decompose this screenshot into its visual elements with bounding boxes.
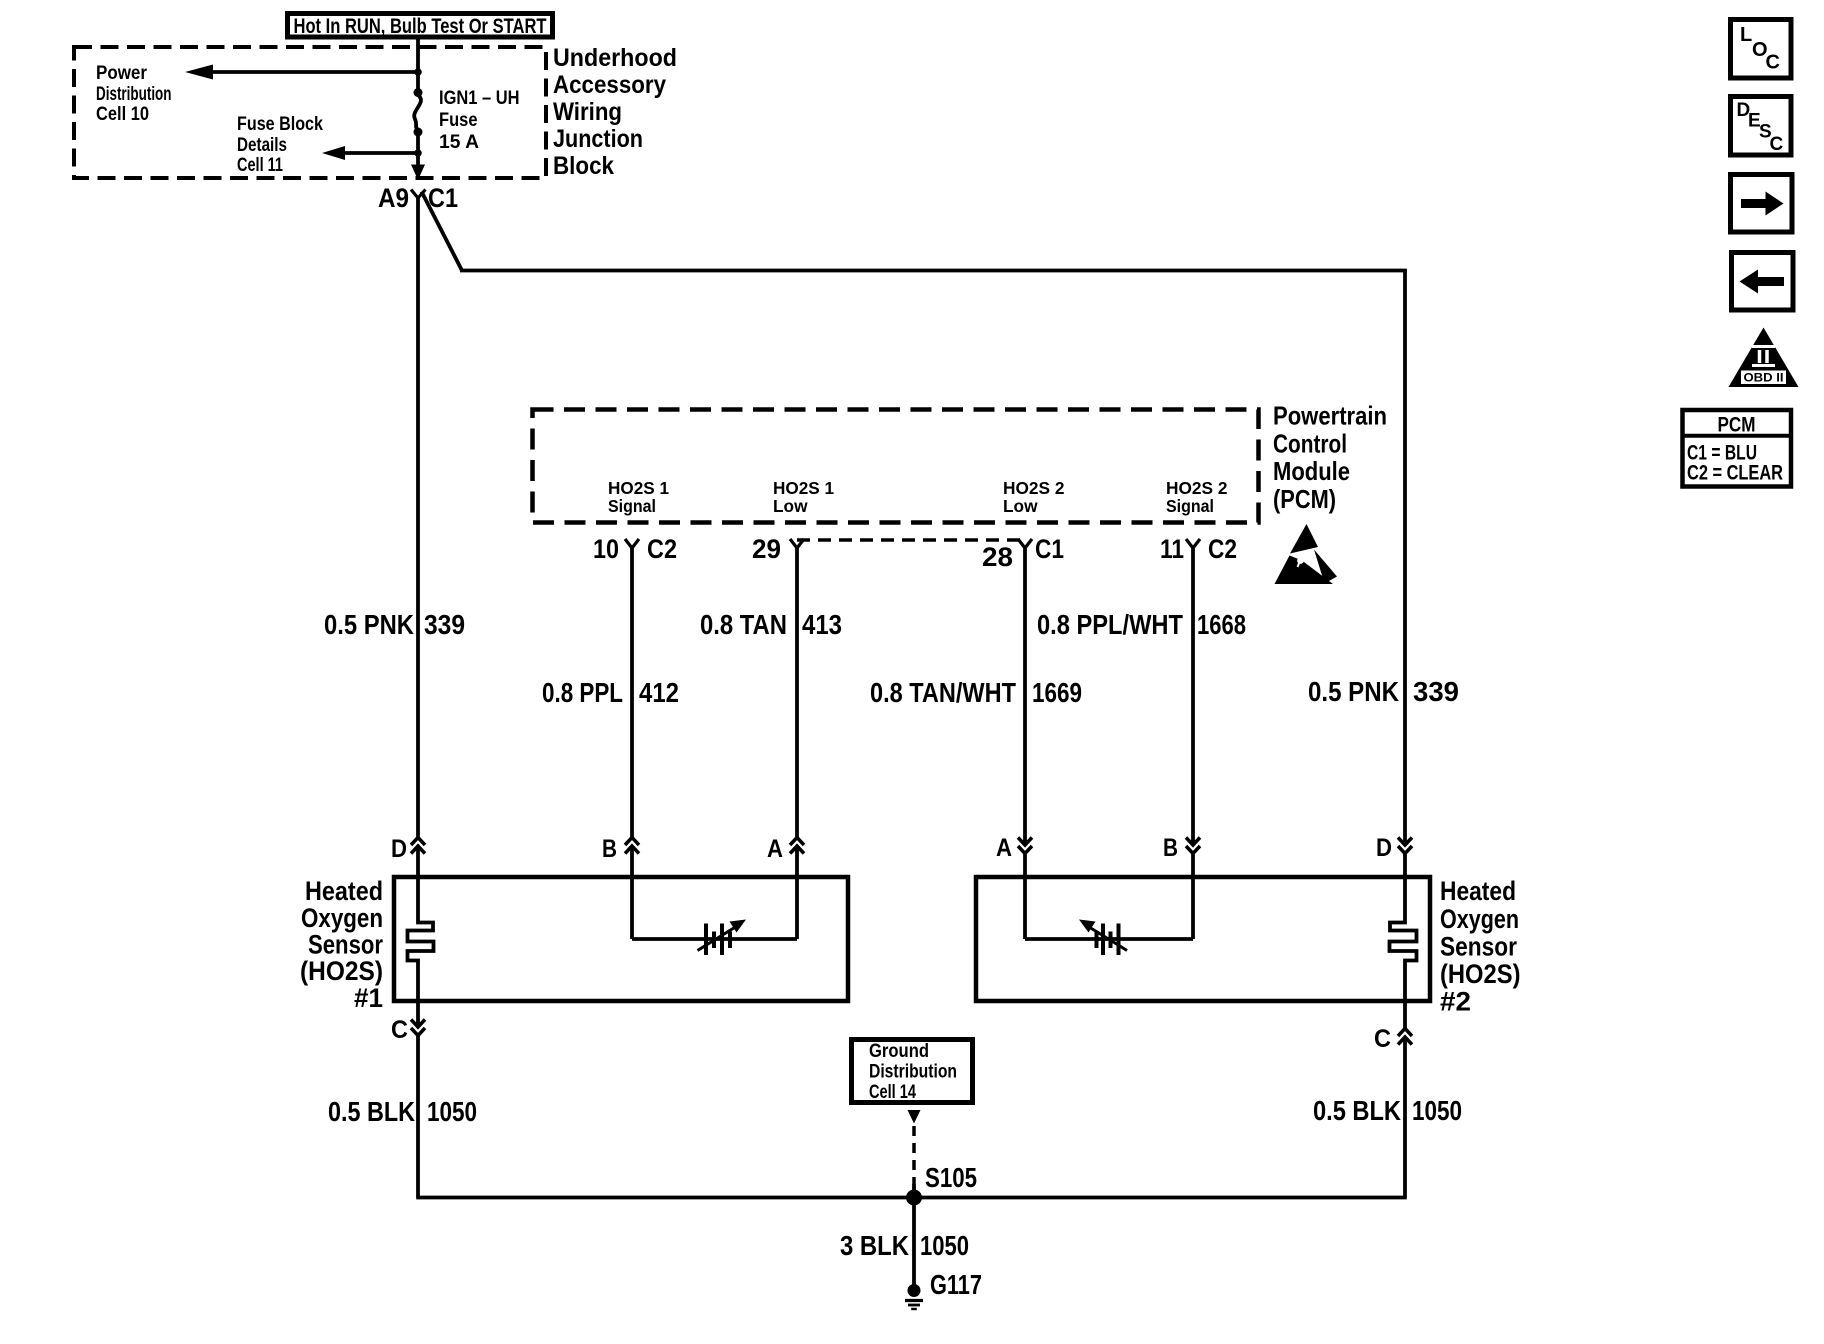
svg-text:Hot In RUN, Bulb Test Or START: Hot In RUN, Bulb Test Or START [294,15,547,38]
svg-text:Sensor: Sensor [308,930,383,960]
svg-text:413: 413 [802,609,842,640]
svg-text:1668: 1668 [1197,609,1246,640]
svg-text:Cell 14: Cell 14 [869,1082,916,1103]
svg-text:Heated: Heated [1440,876,1516,906]
svg-text:B: B [602,835,617,863]
svg-text:11: 11 [1160,534,1184,564]
svg-text:C2: C2 [647,534,677,564]
svg-text:Heated: Heated [305,876,383,906]
svg-text:339: 339 [1413,676,1459,707]
svg-text:C: C [1374,1025,1391,1053]
svg-text:Details: Details [237,135,287,156]
svg-text:1050: 1050 [920,1230,969,1261]
svg-text:B: B [1163,834,1178,862]
svg-text:OBD II: OBD II [1744,371,1784,385]
svg-text:Fuse Block: Fuse Block [237,114,323,135]
svg-text:Wiring: Wiring [553,98,622,126]
svg-text:C: C [391,1016,408,1044]
svg-text:G117: G117 [930,1269,982,1300]
svg-text:#2: #2 [1440,987,1471,1017]
svg-text:D: D [391,835,407,863]
svg-text:Control: Control [1273,428,1347,458]
svg-text:0.5 BLK: 0.5 BLK [328,1096,415,1127]
svg-text:C1: C1 [1035,534,1064,564]
svg-text:Oxygen: Oxygen [1440,904,1519,934]
svg-text:Block: Block [553,152,614,180]
svg-text:0.5 BLK: 0.5 BLK [1313,1095,1401,1126]
svg-text:Sensor: Sensor [1440,932,1517,962]
svg-text:412: 412 [639,677,679,708]
svg-text:Cell 11: Cell 11 [237,155,283,176]
svg-text:D: D [1376,834,1392,862]
svg-text:HO2S 1: HO2S 1 [773,478,834,498]
svg-text:C2: C2 [1208,534,1237,564]
svg-text:Signal: Signal [608,496,656,516]
svg-text:(PCM): (PCM) [1273,484,1336,514]
svg-text:(HO2S): (HO2S) [300,956,383,986]
svg-text:C2 = CLEAR: C2 = CLEAR [1687,462,1783,485]
svg-text:Oxygen: Oxygen [301,903,383,933]
svg-text:Accessory: Accessory [553,71,666,99]
svg-text:C1: C1 [428,183,458,213]
svg-text:PCM: PCM [1718,414,1756,437]
svg-text:0.8 TAN/WHT: 0.8 TAN/WHT [870,677,1016,708]
svg-text:3 BLK: 3 BLK [840,1230,909,1261]
svg-text:Signal: Signal [1166,496,1214,516]
svg-text:1050: 1050 [1412,1095,1462,1126]
svg-text:Distribution: Distribution [869,1062,957,1083]
svg-text:Low: Low [773,496,808,516]
svg-text:L: L [1740,24,1752,46]
svg-text:HO2S 2: HO2S 2 [1003,478,1065,498]
svg-text:Cell 10: Cell 10 [96,104,149,125]
svg-text:1669: 1669 [1032,677,1082,708]
svg-text:HO2S 1: HO2S 1 [608,478,669,498]
svg-text:0.8 PPL: 0.8 PPL [542,677,623,708]
svg-text:1050: 1050 [427,1096,477,1127]
svg-text:Junction: Junction [553,125,643,153]
svg-text:10: 10 [593,534,619,564]
svg-text:Power: Power [96,63,148,84]
svg-text:Distribution: Distribution [96,84,172,105]
svg-text:15 A: 15 A [439,132,479,153]
svg-text:29: 29 [752,534,781,564]
svg-text:339: 339 [424,609,465,640]
svg-text:S105: S105 [925,1162,977,1193]
svg-text:Powertrain: Powertrain [1273,401,1387,431]
svg-text:C: C [1766,52,1780,74]
svg-text:Low: Low [1003,496,1038,516]
svg-text:A9: A9 [378,183,409,213]
svg-text:28: 28 [982,542,1013,572]
svg-text:0.5 PNK: 0.5 PNK [1308,676,1399,707]
svg-text:#1: #1 [354,983,383,1013]
svg-text:Ground: Ground [869,1041,929,1062]
svg-text:0.5 PNK: 0.5 PNK [324,609,414,640]
svg-text:0.8 TAN: 0.8 TAN [700,609,787,640]
svg-text:Fuse: Fuse [439,110,478,131]
svg-text:Module: Module [1273,456,1350,486]
svg-text:A: A [767,835,783,863]
svg-text:(HO2S): (HO2S) [1440,959,1521,989]
svg-text:HO2S 2: HO2S 2 [1166,478,1228,498]
svg-text:Underhood: Underhood [553,44,677,72]
svg-text:A: A [996,834,1012,862]
svg-text:0.8 PPL/WHT: 0.8 PPL/WHT [1037,609,1183,640]
svg-text:IGN1 – UH: IGN1 – UH [439,88,520,109]
svg-text:C: C [1770,134,1784,155]
